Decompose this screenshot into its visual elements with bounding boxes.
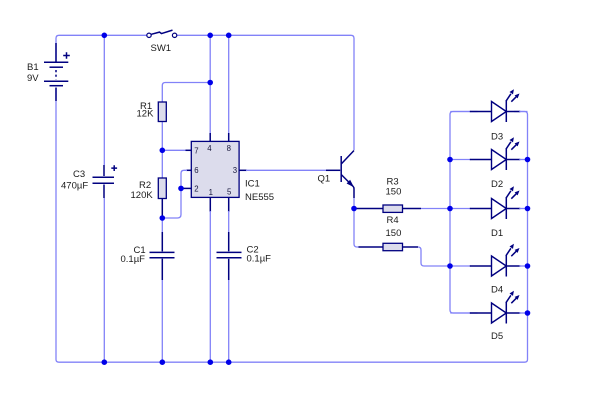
LED D1: [450, 186, 527, 219]
wire R4 left dark: [359, 246, 384, 248]
wire R1 top branch to pin4 line: [162, 83, 210, 103]
wire pin4 to top rail: [209, 35, 211, 134]
IC IC1 NE555 body: [191, 141, 239, 197]
wire C2 lead dark bottom: [228, 259, 230, 280]
node left rail D2: [447, 157, 453, 163]
node R1 branch: [207, 80, 213, 86]
svg-text:5: 5: [227, 188, 232, 197]
svg-text:D3: D3: [491, 132, 503, 143]
node R1/R2/pin7: [160, 148, 166, 154]
wire C3 branch bottom: [103, 198, 105, 362]
node left rail D4: [447, 263, 453, 269]
svg-text:2: 2: [194, 185, 198, 194]
node top rail / pin8: [226, 33, 232, 39]
node bottom rail pin1: [208, 359, 214, 365]
wire pin5 stub: [228, 197, 230, 212]
svg-text:6: 6: [194, 166, 198, 175]
node top rail / pin4: [207, 33, 213, 39]
resistor R1: [158, 102, 166, 122]
node right rail D2: [525, 157, 531, 163]
svg-text:C3: C3: [73, 169, 85, 180]
wire R3 to LED left rail: [421, 208, 450, 210]
capacitor C2: [217, 252, 242, 257]
wire R1 bottom to node: [161, 122, 163, 151]
svg-text:D2: D2: [491, 179, 503, 190]
wire pin3 to Q1 base light: [239, 169, 247, 171]
node Q1 emitter / R3 / R4: [351, 206, 357, 212]
wire R2 bottom lead (dark): [161, 199, 163, 219]
wire top rail left (battery to switch): [56, 35, 147, 62]
node right rail D1: [525, 206, 531, 212]
node left rail D1: [447, 206, 453, 212]
wire C1 lead dark bottom: [161, 259, 163, 280]
node right rail D4: [525, 263, 531, 269]
wire pin8 stub: [228, 133, 230, 141]
node pin2/pin6: [178, 186, 184, 192]
wire Q1 emitter down light: [353, 198, 355, 209]
switch SW1: [147, 30, 177, 37]
svg-text:12K: 12K: [137, 109, 155, 120]
svg-text:B1: B1: [27, 62, 39, 73]
svg-text:D4: D4: [491, 285, 503, 296]
wire LED left rail: [450, 112, 478, 314]
node top rail / C3 branch: [102, 33, 108, 39]
wire node Q1 to R3 (dark): [354, 208, 383, 210]
wire R4 to D4 node: [418, 247, 450, 266]
transistor Q1: [341, 151, 354, 199]
capacitor C3: [93, 165, 118, 198]
svg-text:D1: D1: [491, 228, 503, 239]
wire pin8 to top rail: [228, 35, 230, 134]
wire C1 column light top: [161, 218, 163, 232]
resistor R4: [383, 243, 403, 250]
wire pin1 stub: [209, 197, 211, 212]
wire battery bottom / bottom rail / right LED rail: [56, 88, 528, 362]
svg-text:9V: 9V: [27, 73, 39, 84]
wire C2 column light bottom: [228, 280, 230, 362]
battery B1: [44, 43, 70, 101]
wire pin6 to pin2 node: [186, 169, 191, 171]
wire C1 lead dark top: [161, 232, 163, 251]
svg-text:7: 7: [194, 147, 198, 156]
svg-text:150: 150: [386, 187, 402, 198]
node R2/C1: [160, 215, 166, 221]
svg-text:470µF: 470µF: [61, 181, 88, 192]
svg-text:R4: R4: [387, 215, 399, 226]
svg-text:SW1: SW1: [151, 43, 172, 54]
wire R2 top lead: [161, 150, 163, 178]
svg-text:120K: 120K: [131, 190, 154, 201]
LED D4: [450, 244, 527, 277]
node bottom rail C2: [226, 359, 232, 365]
svg-text:1: 1: [209, 188, 213, 197]
svg-text:NE555: NE555: [245, 192, 274, 203]
svg-text:D5: D5: [491, 331, 503, 342]
wire R4 right dark: [402, 246, 418, 248]
svg-text:8: 8: [227, 144, 231, 153]
wire pin3 to Q1 base dark: [326, 169, 340, 171]
node right rail D5: [525, 310, 531, 316]
node bottom rail C1: [160, 359, 166, 365]
resistor R2: [158, 178, 166, 199]
svg-text:150: 150: [386, 228, 402, 239]
wire node to pin7: [162, 149, 186, 151]
LED D3: [450, 89, 527, 122]
wire C1 column light bottom: [161, 280, 163, 362]
wire C2 lead dark top: [228, 232, 230, 251]
svg-text:4: 4: [207, 144, 212, 153]
wire top rail right (switch to Q1 collector): [177, 35, 354, 150]
wire pin5 to C2: [228, 211, 230, 232]
wire pin1 to bottom rail: [209, 211, 211, 362]
svg-text:Q1: Q1: [318, 174, 331, 185]
LED D5: [450, 291, 527, 324]
svg-text:0.1µF: 0.1µF: [121, 254, 146, 265]
resistor R3: [383, 205, 403, 212]
capacitor C1: [150, 252, 175, 257]
node bottom rail C3: [102, 359, 108, 365]
svg-text:0.1µF: 0.1µF: [247, 254, 272, 265]
wire R3 right dark: [402, 208, 421, 210]
svg-text:IC1: IC1: [245, 179, 260, 190]
wire pin4 stub: [209, 133, 211, 141]
svg-text:3: 3: [233, 166, 237, 175]
LED D2: [450, 137, 527, 170]
wire node to R4 route: [354, 209, 359, 248]
wire pin2 stub (dark): [181, 187, 191, 189]
wire C3 branch top: [103, 35, 105, 165]
